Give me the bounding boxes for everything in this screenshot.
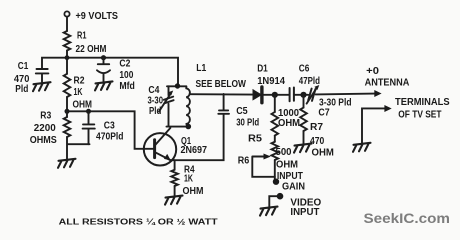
wiper of R6 [252,157,274,177]
ground (TV set) [353,143,371,152]
svg-text:Pld: Pld [149,106,161,117]
diode D1 [253,90,261,100]
svg-text:2N697: 2N697 [181,145,208,156]
inductor L1 [186,86,190,124]
wire: +9V bus [42,58,178,86]
svg-text:R7: R7 [310,122,323,133]
resistor R2 [66,58,68,74]
wire: R1 to bus [66,51,68,58]
svg-text:OHM: OHM [73,99,93,110]
wire: supply to R1 [66,17,68,31]
svg-text:OF TV SET: OF TV SET [398,110,441,121]
svg-text:470: 470 [14,74,30,85]
svg-text:R3: R3 [40,110,51,121]
svg-text:+0: +0 [366,66,379,77]
resistor R1 [64,31,71,51]
arrow of C4 [159,94,171,112]
resistor R4 [174,160,176,170]
svg-text:1K: 1K [74,87,84,98]
svg-text:C7: C7 [318,107,330,118]
ground (C2) [95,81,113,90]
potentiometer R6 [272,142,279,160]
node B (C3 tap) [86,109,91,114]
terminal +9 VOLTS [64,11,69,16]
resistor R7 [303,95,305,108]
variable capacitor C7 [308,89,315,101]
ground (R4) [165,196,183,205]
node: bus/tank junction [175,83,180,88]
svg-text:47Pld: 47Pld [299,76,320,87]
svg-text:C6: C6 [299,64,310,75]
wire: C7 to antenna arrow [316,93,375,96]
svg-text:OHM: OHM [312,148,334,159]
svg-text:R1: R1 [77,30,87,41]
svg-text:L1: L1 [196,63,206,74]
svg-text:100: 100 [119,70,133,81]
svg-text:D1: D1 [257,64,268,75]
capacitor C5 [218,94,229,114]
wire: TV set ground terminal [362,108,385,142]
svg-text:C5: C5 [236,106,248,117]
ground (video input) [260,207,278,216]
node A (R2/R3/C3) [65,109,70,114]
variable capacitor C4 [164,86,174,126]
svg-text:OHM: OHM [278,118,300,129]
svg-text:SeekIC.com: SeekIC.com [364,211,451,226]
svg-text:1K: 1K [184,174,194,185]
emitter of Q1 [155,152,171,160]
svg-text:30 Pld: 30 Pld [236,117,259,128]
capacitor C3 [83,111,95,144]
svg-text:470Pld: 470Pld [96,132,124,143]
node: detector junction [272,92,278,98]
svg-text:OHM: OHM [183,186,204,197]
svg-text:R6: R6 [238,156,250,167]
wire: emitter line to C5 [171,114,224,160]
potentiometer R5 [274,95,276,112]
wire: D1 to C6 [264,94,290,96]
wire: base node line [67,111,153,149]
collector of Q1 [155,128,170,145]
capacitor C2 (electrolytic) [98,58,109,64]
svg-text:C2: C2 [119,58,130,69]
svg-text:2200: 2200 [34,123,56,134]
svg-text:GAIN: GAIN [282,181,305,192]
svg-text:OHMS: OHMS [30,135,57,146]
terminal: input gain [273,179,279,185]
node: C7 junction [300,92,306,98]
svg-text:470: 470 [310,136,325,147]
node: C2/bus junction [101,55,106,60]
capacitor C1 [36,69,49,82]
svg-text:SEE BELOW: SEE BELOW [196,79,247,90]
svg-text:Pld: Pld [15,84,28,95]
svg-text:+9 VOLTS: +9 VOLTS [76,11,119,22]
svg-text:500: 500 [276,147,292,158]
svg-text:TERMINALS: TERMINALS [395,97,450,108]
svg-text:ANTENNA: ANTENNA [365,77,410,88]
wire: C6 to C7 [294,94,308,96]
svg-text:C4: C4 [148,85,159,96]
svg-text:C1: C1 [18,61,29,72]
svg-text:R5: R5 [248,134,262,145]
terminal: video input [277,193,284,200]
ground (C1) [33,82,51,91]
svg-text:22 OHM: 22 OHM [76,44,107,55]
svg-text:C3: C3 [104,121,115,132]
capacitor C6 [290,88,294,102]
resistor R3 [66,111,68,117]
svg-text:ALL RESISTORS ¼ OR ½ WATT: ALL RESISTORS ¼ OR ½ WATT [59,216,219,226]
transistor Q1 [144,133,176,165]
svg-text:R2: R2 [74,75,85,86]
svg-text:INPUT: INPUT [290,207,319,218]
svg-text:Mfd: Mfd [119,81,134,92]
wire: L1 tap to D1 [190,93,253,95]
svg-text:OHM: OHM [276,160,298,171]
ground (R7) [294,144,312,153]
ground (R3) [58,159,76,168]
svg-text:3-30: 3-30 [148,96,164,107]
wire: tank top node [167,85,186,87]
node: L1 bottom junction [186,124,192,130]
svg-text:1N914: 1N914 [257,76,285,87]
node: R1/bus junction [65,55,70,60]
wire: tank bottom node [167,126,189,128]
